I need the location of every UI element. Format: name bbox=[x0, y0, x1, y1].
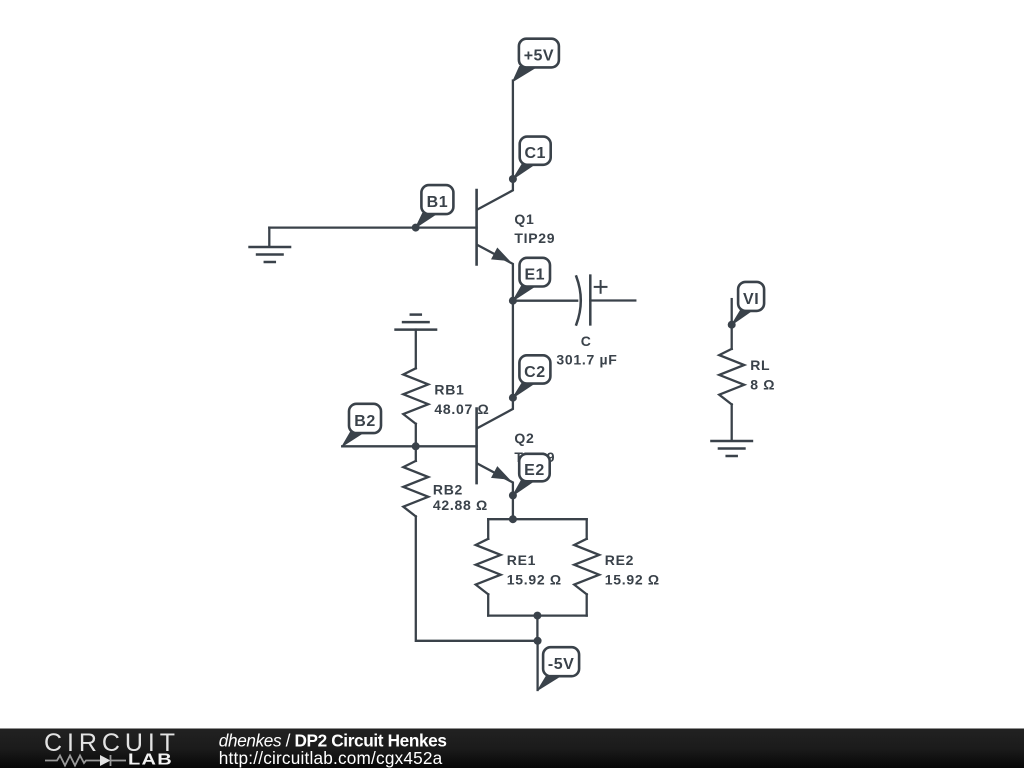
pin label C2 bbox=[513, 355, 551, 397]
wire to ground bbox=[268, 228, 270, 247]
wire left branch top bbox=[487, 519, 489, 539]
svg-text:E1: E1 bbox=[524, 267, 545, 284]
svg-text:B2: B2 bbox=[354, 413, 375, 430]
node -5V junction bbox=[534, 637, 542, 645]
wire RB1 to node bbox=[415, 424, 417, 447]
logo resistor-diode squiggle bbox=[45, 755, 126, 766]
label RE2 value bbox=[605, 552, 660, 587]
label C value bbox=[556, 333, 617, 368]
svg-text:Q1: Q1 bbox=[514, 211, 534, 227]
resistor RE2 bbox=[574, 539, 599, 595]
wire bottom rail to -5V junction bbox=[536, 616, 538, 641]
wire capacitor right bbox=[590, 299, 635, 301]
wire RL to ground bbox=[731, 404, 733, 440]
wire Q2 base bbox=[342, 445, 476, 447]
svg-text:301.7 µF: 301.7 µF bbox=[556, 351, 617, 367]
node VI bbox=[728, 321, 736, 329]
wire bottom rail bbox=[488, 614, 587, 616]
label Q2 value (TIP29 partially hidden by E2 callout) bbox=[514, 430, 555, 465]
svg-text:C1: C1 bbox=[524, 145, 545, 162]
svg-text:B1: B1 bbox=[427, 194, 448, 211]
node bottom rail bbox=[533, 612, 541, 620]
svg-text:RB2: RB2 bbox=[433, 481, 463, 497]
pin label E1 bbox=[513, 258, 550, 301]
capacitor C (polarized) bbox=[576, 276, 606, 325]
svg-text:15.92 Ω: 15.92 Ω bbox=[605, 572, 660, 588]
wire left branch bottom bbox=[487, 594, 489, 615]
wire right branch top bbox=[586, 519, 588, 539]
label RE1 value bbox=[507, 552, 562, 587]
wire RB2 down and right to -5V net bbox=[416, 516, 538, 640]
wire node to RB2 bbox=[415, 446, 417, 461]
transistor Q1 TIP29 bbox=[477, 179, 513, 301]
svg-text:RB1: RB1 bbox=[434, 382, 464, 398]
svg-text:C2: C2 bbox=[524, 364, 545, 381]
label RL value bbox=[750, 357, 775, 392]
node C2 (Q2 collector) bbox=[509, 394, 517, 402]
wire right branch bottom bbox=[586, 594, 588, 615]
ground (below RL) bbox=[711, 441, 752, 456]
pin label B1 bbox=[416, 185, 454, 228]
svg-text:42.88 Ω: 42.88 Ω bbox=[433, 497, 488, 513]
node E1 (Q1 emitter) bbox=[509, 297, 517, 305]
svg-text:LAB: LAB bbox=[128, 752, 173, 768]
ground (flipped, above RB1) bbox=[396, 315, 437, 330]
pin label B2 bbox=[342, 404, 381, 447]
power label +5V bbox=[513, 39, 559, 82]
node E2 (Q2 emitter) bbox=[509, 491, 517, 499]
wire +5V to C1 bbox=[512, 81, 514, 180]
svg-text:-5V: -5V bbox=[548, 656, 574, 673]
label Q1 value bbox=[514, 211, 555, 246]
resistor RB1 bbox=[403, 368, 428, 424]
wire down to -5V terminal bbox=[536, 641, 538, 690]
svg-text:RE1: RE1 bbox=[507, 552, 536, 568]
wire ground to RB1 bbox=[415, 330, 417, 369]
wire Q1 base bbox=[269, 226, 476, 228]
ground (Q1 base) bbox=[250, 247, 290, 262]
wire VI terminal bbox=[731, 299, 733, 349]
pin label VI bbox=[732, 282, 764, 325]
node B1 (Q1 base) bbox=[412, 224, 420, 232]
wire top rail bbox=[488, 518, 587, 520]
wire E1 to C2 bbox=[512, 301, 514, 398]
svg-text:http://circuitlab.com/cgx452a: http://circuitlab.com/cgx452a bbox=[219, 748, 443, 768]
node C1 (Q1 collector) bbox=[509, 175, 517, 183]
svg-text:8 Ω: 8 Ω bbox=[750, 376, 775, 392]
node at top rail bbox=[509, 515, 517, 523]
label RB1 value bbox=[434, 382, 489, 418]
label RB2 value bbox=[433, 481, 488, 513]
node at RB1/RB2/base junction bbox=[412, 442, 420, 450]
transistor Q2 TIP29 bbox=[477, 398, 513, 496]
resistor RE1 bbox=[476, 539, 501, 595]
resistor RL bbox=[719, 349, 744, 405]
svg-text:+5V: +5V bbox=[524, 47, 554, 64]
svg-text:Q2: Q2 bbox=[514, 430, 534, 446]
svg-text:48.07 Ω: 48.07 Ω bbox=[434, 401, 489, 417]
pin label E2 bbox=[513, 454, 550, 496]
svg-text:VI: VI bbox=[743, 291, 759, 308]
svg-text:E2: E2 bbox=[524, 462, 545, 479]
resistor RB2 bbox=[403, 461, 428, 516]
wire E2 down to parallel resistors bbox=[512, 495, 514, 519]
power label -5V bbox=[538, 647, 579, 690]
svg-text:RL: RL bbox=[750, 357, 770, 373]
svg-text:TIP29: TIP29 bbox=[514, 230, 555, 246]
pin label C1 bbox=[513, 137, 551, 179]
svg-text:C: C bbox=[581, 333, 592, 349]
wire E1 to capacitor bbox=[513, 300, 577, 302]
svg-text:RE2: RE2 bbox=[605, 552, 634, 568]
svg-text:15.92 Ω: 15.92 Ω bbox=[507, 572, 562, 588]
